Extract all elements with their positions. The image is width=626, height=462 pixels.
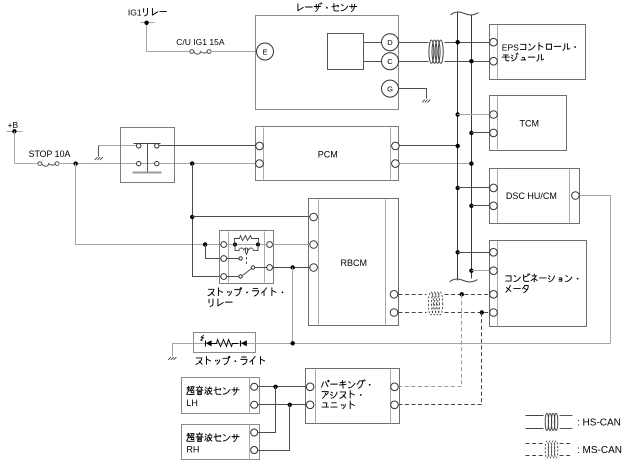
sensor: laser sensor box <box>256 16 399 110</box>
wire: +B down to STOP fuse <box>14 132 16 164</box>
relay contact bar <box>134 143 161 145</box>
RBCM pins <box>310 213 318 221</box>
diode 2 in stop light <box>240 341 242 347</box>
junction LH/RH 1 <box>273 385 277 389</box>
svg-text:TCM: TCM <box>520 119 540 129</box>
module TCM box <box>490 96 567 151</box>
wire: bus to TCM pin2 <box>472 132 490 134</box>
label combination meter <box>506 274 579 282</box>
fuse STOP 10A <box>38 162 42 166</box>
wire: stop light feed to DSC line <box>256 343 611 345</box>
junction coil right <box>256 243 260 247</box>
bus junctions <box>456 40 460 44</box>
wire: main relay ground lead <box>99 145 137 147</box>
twisted pair MS-CAN <box>428 292 433 315</box>
module PCM box <box>256 127 399 181</box>
svg-text:EPS: EPS <box>502 42 519 52</box>
module parking assist unit box <box>306 369 400 424</box>
wire: pin C to twisted pair <box>399 61 429 63</box>
relay coil in stop light relay <box>235 245 258 251</box>
junction MS-CAN B <box>480 310 484 314</box>
wire: switch common to pin3 <box>227 276 239 278</box>
bus break symbol bottom <box>450 279 478 282</box>
svg-text:G: G <box>387 85 393 94</box>
svg-text:PCM: PCM <box>318 150 338 160</box>
legend HS-CAN symbol <box>526 415 544 417</box>
label laser sensor <box>298 3 357 12</box>
junction coil branch <box>203 242 207 246</box>
module EPS control module box <box>490 25 586 80</box>
junction +B terminal <box>12 129 16 133</box>
wire: RBCM MS-CAN A to twisted pair <box>399 294 427 296</box>
RH pins <box>251 429 258 436</box>
EPS pins <box>490 38 498 46</box>
svg-text:RBCM: RBCM <box>341 258 368 268</box>
svg-text:: MS-CAN: : MS-CAN <box>577 445 622 456</box>
svg-text:+B: +B <box>8 120 19 130</box>
junction stop light feed <box>291 341 295 345</box>
relay: main relay box <box>121 128 175 183</box>
wire: stop light relay to RBCM pin2 <box>273 244 310 246</box>
switch common circle <box>239 275 242 278</box>
bus break symbol top <box>451 12 479 15</box>
node IG1 relay terminal tick <box>141 22 155 24</box>
wire: bus to DSC pin1 <box>458 187 490 189</box>
relay coil bar <box>133 172 162 174</box>
wire: twisted pair to EPS CAN-L <box>445 61 490 63</box>
relay coil core marks <box>245 249 247 254</box>
pin E <box>257 43 274 60</box>
wire through stop light <box>194 343 256 345</box>
junction stop light branch <box>291 265 295 269</box>
svg-text:E: E <box>262 47 267 56</box>
svg-text:LH: LH <box>186 398 198 408</box>
pin D <box>382 34 399 51</box>
svg-text:DSC HU/CM: DSC HU/CM <box>506 191 557 201</box>
svg-text:RH: RH <box>186 445 199 455</box>
laser sensor inner unit <box>328 34 364 70</box>
wire: DSC to stop light feed <box>580 196 611 344</box>
wire: MS-CAN A to meter <box>445 294 490 296</box>
wire: relay pin2 to switch contact <box>227 258 239 260</box>
wire: STOP fuse to stop light relay coil branch and main relay <box>59 163 137 165</box>
module RBCM box <box>309 199 399 326</box>
svg-text:C/U IG1 15A: C/U IG1 15A <box>176 37 225 47</box>
switch blade <box>243 269 252 276</box>
wire: bus to DSC pin2 <box>472 205 490 207</box>
wire: contact b to relay pin r2 <box>255 267 267 269</box>
wire: MS-CAN B branch to parking assist <box>481 313 483 405</box>
wire: twisted pair to EPS CAN-H <box>445 42 490 44</box>
parking assist pins <box>306 383 314 391</box>
wire: inner unit to pin D <box>364 42 383 44</box>
junction branch to RBCM pin 1 <box>190 215 194 219</box>
fuse C/U IG1 15A <box>190 50 194 54</box>
twisted pair HS-CAN from laser sensor <box>429 40 434 63</box>
sensor: ultrasonic sensor RH box <box>182 425 260 460</box>
HS-CAN bus line 1 <box>457 12 459 281</box>
wire: RBCM MS-CAN B to twisted pair <box>399 312 427 314</box>
wire: bus to meter pin1 <box>458 252 490 254</box>
diode 1 in stop light <box>205 341 207 347</box>
wire: LH pin2 to parking assist pin2 <box>258 404 307 406</box>
label stop light <box>196 356 265 364</box>
label ultrasonic sensor RH <box>187 433 239 442</box>
wire: MS-CAN B to meter <box>445 312 490 314</box>
armature link dashed <box>246 253 248 266</box>
TCM pins <box>490 111 498 119</box>
svg-text:STOP 10A: STOP 10A <box>29 149 71 159</box>
wire: coil feed through relay <box>227 244 267 246</box>
svg-text:IG1: IG1 <box>128 8 142 18</box>
PCM pins <box>256 142 264 150</box>
legend MS-CAN symbol <box>526 443 544 445</box>
wire: stop light ground lead <box>173 344 194 357</box>
label stop light relay <box>208 288 283 296</box>
switch contact b <box>251 266 254 269</box>
ground for stop light <box>168 357 171 360</box>
LH pins <box>251 383 258 390</box>
lamp: stop light box <box>194 333 256 353</box>
wire: pin G to ground <box>399 89 427 99</box>
junction IG1 relay terminal <box>144 21 148 25</box>
wire: IG1 relay feed down to C/U IG1 fuse <box>146 23 148 52</box>
node +B terminal tick <box>7 131 23 133</box>
module DSC HU/CM box <box>490 169 580 224</box>
wire: bus to meter pin2 <box>472 270 490 272</box>
sensor: ultrasonic sensor LH box <box>182 378 260 414</box>
pin G <box>382 80 399 97</box>
wire: inner unit to pin C <box>364 61 383 63</box>
wire: through main relay contacts to PCM <box>141 163 256 165</box>
wire: +B branch down and right to stop light relay <box>76 164 203 245</box>
junction stop light switch feed <box>190 161 194 165</box>
wire: branch to RH pin2 <box>258 405 290 451</box>
module combination meter box <box>490 241 587 327</box>
wire: main relay output to PCM pin 1 <box>159 145 256 147</box>
label ultrasonic sensor LH <box>187 386 239 395</box>
wire: stop light relay switch to RBCM pin3 <box>273 267 310 269</box>
meter pins <box>490 249 498 257</box>
LED arrow in stop light <box>201 335 204 340</box>
relay pins <box>137 144 141 148</box>
wire: branch down to stop light relay pin 2 <box>206 245 221 259</box>
junction MS-CAN A <box>460 292 464 296</box>
wire: pin D to twisted pair <box>399 42 429 44</box>
wire: branch to RBCM pin 1 <box>193 216 310 218</box>
wire: fuse to laser sensor pin E <box>211 51 257 53</box>
svg-text:: HS-CAN: : HS-CAN <box>577 417 621 428</box>
resistor in stop light relay <box>235 236 259 245</box>
DSC pins <box>490 184 498 192</box>
wire: LH pin1 to parking assist pin1 <box>258 386 307 388</box>
svg-text:C: C <box>387 57 393 66</box>
ground for laser sensor <box>422 100 425 103</box>
switch contact a <box>239 257 242 260</box>
wire: PCM CAN-H to bus <box>400 145 458 147</box>
svg-text:D: D <box>387 38 393 47</box>
pin C <box>382 53 399 70</box>
resistor in stop light <box>212 340 239 347</box>
wire: PCM CAN-L to bus <box>400 163 472 165</box>
wire: bus to TCM pin1 <box>458 114 490 116</box>
wire: branch to RH pin1 <box>258 387 276 433</box>
junction LH/RH 2 <box>288 403 292 407</box>
label parking assist unit <box>322 380 371 388</box>
HS-CAN bus line 2 <box>471 15 473 279</box>
ground for main relay <box>95 157 98 160</box>
wire: down from STOP feed to RBCM and stop light relay <box>193 164 221 277</box>
stop light relay pins <box>221 242 227 248</box>
junction coil left <box>233 243 237 247</box>
junction on +B wire <box>74 161 78 165</box>
wire: down to stop light <box>292 268 294 344</box>
wire: MS-CAN A branch to parking assist <box>461 295 463 387</box>
relay armature <box>147 144 149 173</box>
relay: stop light relay box <box>220 231 274 284</box>
